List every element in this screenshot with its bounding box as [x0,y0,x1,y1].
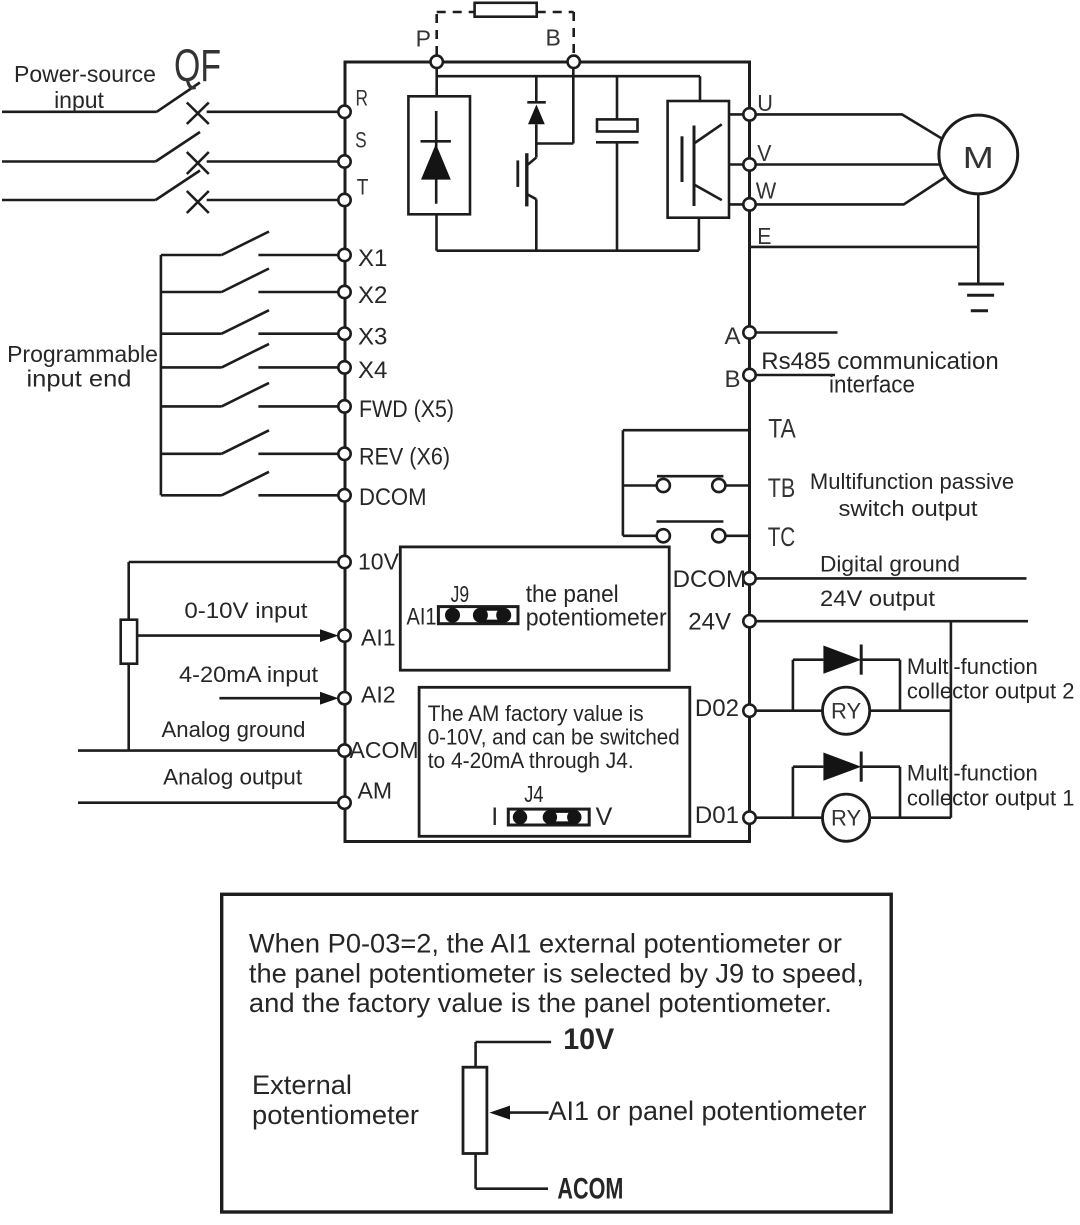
svg-text:Analog ground: Analog ground [162,717,306,742]
svg-text:0-10V, and can be switched: 0-10V, and can be switched [428,725,680,750]
svg-text:Analog output: Analog output [163,765,302,790]
svg-text:REV (X6): REV (X6) [359,444,450,471]
svg-text:interface: interface [829,372,915,399]
svg-text:4-20mA input: 4-20mA input [179,662,318,687]
svg-text:10V: 10V [563,1023,614,1056]
svg-text:Programmable: Programmable [7,341,158,367]
svg-text:V: V [596,803,613,831]
svg-text:U: U [757,90,773,116]
svg-text:D02: D02 [695,695,739,722]
svg-text:I: I [491,803,498,831]
svg-text:V: V [757,140,772,166]
svg-text:T: T [357,174,369,199]
svg-text:W: W [756,178,777,204]
svg-text:R: R [356,86,369,111]
svg-text:Multifunction passive: Multifunction passive [810,469,1014,494]
svg-text:X4: X4 [358,357,387,384]
svg-text:10V: 10V [358,549,400,575]
svg-text:collector output 2: collector output 2 [907,679,1075,704]
svg-text:DCOM: DCOM [359,484,427,511]
svg-text:J9: J9 [451,581,470,607]
svg-text:AI1: AI1 [361,625,396,651]
svg-text:switch output: switch output [839,496,978,521]
svg-text:A: A [724,323,740,350]
svg-text:D01: D01 [695,802,739,829]
svg-text:input end: input end [27,366,132,392]
svg-text:External: External [252,1070,352,1100]
svg-text:RY: RY [831,806,861,831]
svg-text:0-10V input: 0-10V input [184,598,307,623]
svg-text:24V output: 24V output [820,586,935,611]
svg-text:The AM factory value is: The AM factory value is [428,701,644,726]
svg-text:Power-source: Power-source [14,61,156,87]
svg-text:J4: J4 [524,781,543,807]
svg-text:B: B [724,366,740,393]
svg-text:ACOM: ACOM [350,737,419,763]
svg-text:S: S [355,128,367,153]
svg-text:collector output 1: collector output 1 [907,786,1075,811]
svg-text:the panel potentiometer is sel: the panel potentiometer is selected by J… [249,959,864,989]
svg-text:M: M [963,140,994,175]
svg-text:24V: 24V [688,609,731,636]
svg-text:potentiometer: potentiometer [252,1100,419,1130]
svg-text:Digital ground: Digital ground [820,552,960,577]
svg-text:Multi-function: Multi-function [907,761,1038,786]
svg-text:to 4-20mA through J4.: to 4-20mA through J4. [428,748,634,773]
svg-text:AM: AM [358,778,393,804]
svg-text:B: B [546,25,561,51]
svg-text:AI2: AI2 [361,682,396,708]
svg-text:E: E [757,223,771,249]
svg-text:P: P [416,26,431,52]
svg-text:X1: X1 [358,245,387,272]
svg-text:and the factory value is the p: and the factory value is the panel poten… [249,988,832,1018]
svg-text:TB: TB [768,473,796,503]
svg-text:input: input [54,87,104,113]
svg-text:When P0-03=2, the AI1 external: When P0-03=2, the AI1 external potentiom… [249,929,842,959]
svg-text:X3: X3 [358,324,387,351]
svg-text:ACOM: ACOM [557,1173,623,1206]
svg-text:Multi-function: Multi-function [907,654,1038,679]
svg-text:TA: TA [768,414,796,444]
svg-text:X2: X2 [358,282,387,309]
svg-text:potentiometer: potentiometer [526,604,667,631]
svg-text:DCOM: DCOM [673,566,746,593]
svg-text:TC: TC [768,522,796,552]
svg-text:FWD (X5): FWD (X5) [359,396,454,423]
svg-text:AI1 or panel potentiometer: AI1 or panel potentiometer [549,1096,867,1126]
svg-text:AI1: AI1 [407,604,437,631]
svg-text:QF: QF [174,40,221,91]
svg-text:RY: RY [831,699,861,724]
